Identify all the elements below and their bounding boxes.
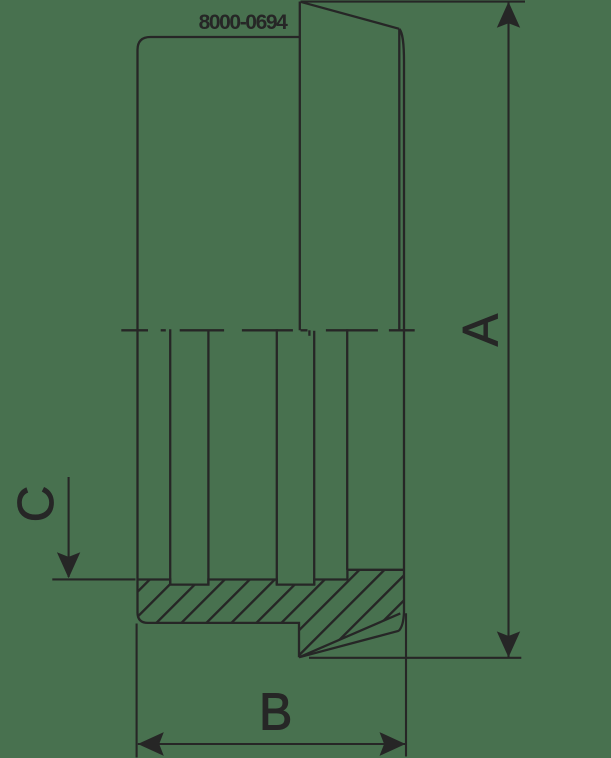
dim A top extension line (301, 1, 526, 3)
dim B left extension line (136, 624, 138, 758)
dim A bottom arrowhead (497, 631, 520, 657)
svg-text:B: B (259, 683, 292, 741)
body top edge with rounded top-left corner (138, 37, 300, 50)
dim A top arrowhead (497, 2, 520, 28)
thread line 2 (207, 330, 209, 584)
dim C line (68, 477, 70, 577)
thread line 6 (346, 329, 348, 570)
front face right edge (299, 2, 301, 331)
outer right edge with bottom fillet (399, 29, 404, 631)
svg-text:C: C (7, 486, 64, 523)
dim B line (138, 743, 406, 745)
dim A bottom extension line (309, 657, 521, 659)
dim A line (507, 2, 509, 657)
thread line 5 (313, 331, 315, 585)
dashed line step tick (308, 330, 310, 336)
top slanted edge (301, 2, 400, 29)
svg-text:A: A (452, 313, 509, 346)
dim C arrowhead (57, 552, 80, 578)
dashed thread start line (121, 329, 414, 331)
thread line 1 (169, 329, 171, 584)
dim C extension line (52, 578, 135, 580)
flange bottom slanted edge (299, 631, 399, 658)
flange top edge with slots (138, 570, 405, 585)
dim B right extension line (405, 613, 407, 756)
inner right vertical line (398, 29, 400, 331)
body left edge with bottom-left rounded corner of flange (138, 50, 300, 657)
cone boundary slant (300, 613, 400, 656)
svg-text:8000-0694: 8000-0694 (199, 11, 289, 34)
dim B left arrowhead (138, 732, 164, 756)
thread line 4 (276, 329, 278, 584)
dim B right arrowhead (380, 732, 406, 756)
hatching (49, 530, 499, 680)
